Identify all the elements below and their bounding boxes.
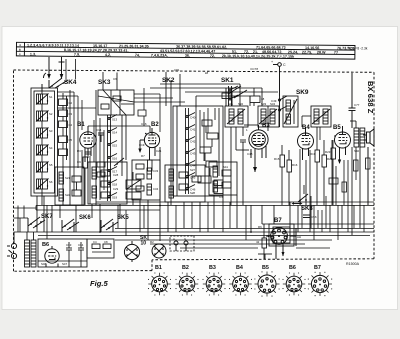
svg-text:B6: B6 <box>289 265 296 271</box>
svg-text:S46: S46 <box>41 262 47 266</box>
tube B7 socket view <box>266 228 287 245</box>
svg-text:C2: C2 <box>69 101 73 105</box>
wire bus y224 <box>262 223 374 225</box>
switch SK6 contacts <box>62 219 79 232</box>
wire ladder rungs bank L1 <box>41 91 43 193</box>
switch SK2 contact C45 <box>186 173 196 180</box>
label SK2 <box>162 77 175 84</box>
coil bank L1 outer frame <box>31 88 58 196</box>
rotary switch volume control <box>150 240 166 258</box>
svg-text:R19: R19 <box>310 152 316 156</box>
header data table <box>16 42 355 59</box>
wire droplines to buses <box>44 147 368 241</box>
coil S4 cell <box>36 145 53 156</box>
switch SK3 top junction box <box>98 90 134 115</box>
note TI 51 <box>347 47 368 51</box>
svg-text:S13: S13 <box>112 118 118 122</box>
resistor R15 under B3 <box>247 145 298 205</box>
label SK1 <box>221 77 234 84</box>
capacitor cluster inside SK2 <box>198 108 219 183</box>
svg-text:S32: S32 <box>238 102 244 106</box>
svg-text:42: 42 <box>256 240 260 244</box>
svg-text:7,9,: 7,9, <box>74 53 80 57</box>
svg-text:C81: C81 <box>174 68 180 72</box>
svg-text:Fig.5: Fig.5 <box>90 279 108 288</box>
svg-text:B1: B1 <box>155 265 162 271</box>
svg-text:C3: C3 <box>219 195 223 199</box>
switch SK1 contact fan <box>226 86 247 106</box>
aerial input jacks <box>7 232 17 259</box>
svg-text:S22: S22 <box>65 193 70 197</box>
svg-text:C49: C49 <box>271 99 277 103</box>
svg-text:C3: C3 <box>69 112 73 116</box>
switch SK8 lever <box>292 194 309 205</box>
tube B3 <box>249 125 268 166</box>
svg-text:B2: B2 <box>151 122 159 128</box>
grid stopper R24 left of B5 <box>325 140 336 205</box>
svg-text:C8: C8 <box>104 240 108 244</box>
socket pin dots rings <box>148 271 332 296</box>
svg-text:BX 638 Z: BX 638 Z <box>366 81 375 114</box>
table row 2 values <box>19 48 338 55</box>
socket diagram B7 <box>308 272 332 296</box>
svg-text:C5: C5 <box>69 138 73 142</box>
socket diagram B4 label <box>236 265 243 271</box>
label BX 638 Z <box>366 81 375 114</box>
switch SK3 contact S14 <box>108 128 118 135</box>
resistor R31 in box <box>92 240 111 252</box>
switch SK3 contact S15 <box>108 141 118 148</box>
trimmer capacitor column SK4 bank <box>59 93 73 205</box>
switch SK2 outer frame <box>173 106 223 196</box>
IF transformer S36 S37 between B3 and B4 <box>311 106 331 127</box>
svg-text:R23: R23 <box>325 150 331 154</box>
tube B4 label <box>302 125 310 131</box>
tube B2 <box>140 128 160 160</box>
capacitor C56 mid right <box>303 215 317 219</box>
coil S6 cell <box>36 179 53 190</box>
tube B7 box <box>269 224 294 246</box>
svg-text:⊙C78: ⊙C78 <box>250 67 258 71</box>
svg-text:51,: 51, <box>232 50 237 54</box>
svg-text:R1500A: R1500A <box>346 262 360 266</box>
table row 3 values <box>19 52 295 59</box>
svg-text:SK6: SK6 <box>79 215 91 221</box>
svg-text:C77: C77 <box>354 103 360 107</box>
svg-text:C4: C4 <box>69 123 73 127</box>
svg-text:S40: S40 <box>354 149 360 153</box>
table row 1 values <box>19 43 354 50</box>
svg-text:S21: S21 <box>65 176 70 180</box>
wire tick above sockets <box>258 254 272 259</box>
label SK4 <box>64 79 77 86</box>
svg-text:C44: C44 <box>190 164 196 168</box>
switch SK3 contact S18 <box>108 180 118 187</box>
svg-text:B4: B4 <box>302 125 310 131</box>
svg-text:S19: S19 <box>112 196 118 200</box>
svg-text:B5: B5 <box>262 265 269 271</box>
svg-text:C12: C12 <box>128 184 134 188</box>
wire SK8 riser <box>290 185 311 228</box>
svg-text:72,: 72, <box>244 50 249 54</box>
svg-text:1,2,3,4,5,6,7,8,9,10,11,12,13,: 1,2,3,4,5,6,7,8,9,10,11,12,13,14 <box>27 43 80 47</box>
wire B4 B5 risers <box>300 140 347 232</box>
svg-text:74,: 74, <box>135 53 140 57</box>
svg-text:B4: B4 <box>236 265 243 271</box>
tube B3 label <box>262 123 270 129</box>
wire bus from bank L1 down <box>37 90 70 232</box>
tube B7 label <box>274 218 282 224</box>
capacitor C77 top right <box>349 73 360 128</box>
socket diagram B6 label <box>289 265 296 271</box>
switch SK5 contacts <box>101 219 118 232</box>
capacitor C36 above IF1 <box>222 88 265 106</box>
switch SK9 wafer <box>271 96 287 127</box>
svg-text:C48: C48 <box>247 152 253 156</box>
svg-text:28,W: 28,W <box>317 51 326 55</box>
power unit box B6 <box>38 239 114 267</box>
svg-text:SK1: SK1 <box>221 77 234 84</box>
svg-text:C40: C40 <box>190 116 196 120</box>
wire verticals between L1 and SK3 <box>74 92 94 205</box>
socket diagram B2 <box>176 273 198 295</box>
svg-text:S27: S27 <box>190 168 195 172</box>
rotary switch SK10 <box>124 241 139 262</box>
wire horizontal bus heater <box>14 231 375 233</box>
svg-text:S18: S18 <box>112 183 118 187</box>
svg-text:S6: S6 <box>49 180 53 184</box>
svg-text:C41: C41 <box>190 128 196 132</box>
wire bus y244 <box>150 243 305 245</box>
antenna terminal arrow <box>44 57 51 79</box>
gram jack dashed box <box>170 236 194 251</box>
svg-text:C34: C34 <box>153 187 159 191</box>
band filter box S27 S28 <box>165 165 205 202</box>
svg-text:R15: R15 <box>274 157 280 161</box>
svg-text:C43: C43 <box>190 152 196 156</box>
svg-text:2k,1k,15,k,10,1g,40,1x,2g,25,2: 2k,1k,15,k,10,1g,40,1x,2g,25,2k,7,=,17,1… <box>222 54 295 59</box>
svg-text:÷: ÷ <box>19 52 21 56</box>
switch SK2 contact C44 <box>186 161 196 168</box>
svg-text:B6: B6 <box>42 242 49 248</box>
switch SK3 contact S19 <box>108 193 118 200</box>
coil S1 cell <box>36 94 53 105</box>
socket diagram B5 <box>255 272 280 297</box>
tube B1 label <box>77 122 85 128</box>
svg-text:R2: R2 <box>150 240 154 244</box>
switch SK4 contact fan <box>42 78 68 91</box>
svg-text:TI 51 =8 -2.3k: TI 51 =8 -2.3k <box>347 47 368 51</box>
coil S3 cell <box>36 128 53 139</box>
label SK9 <box>296 89 309 96</box>
band filter box S21 S22 <box>55 167 84 205</box>
switch SK3 contact S16 <box>108 154 118 161</box>
diode load resistors right of B4 <box>310 127 333 205</box>
svg-text:S5: S5 <box>49 163 53 167</box>
svg-text:C42: C42 <box>190 140 196 144</box>
ground arrow under B5 <box>338 158 341 164</box>
band filter box S41 <box>209 162 237 195</box>
svg-text:77: 77 <box>334 51 338 55</box>
socket diagram B5 label <box>262 265 269 271</box>
capacitor C30 under B1 bank <box>85 148 91 158</box>
socket diagram B2 label <box>182 265 189 271</box>
socket diagram B3 label <box>209 265 216 271</box>
svg-text:C6: C6 <box>113 77 117 81</box>
node C terminal top centre <box>271 60 286 96</box>
wire SK2 feeds <box>150 67 278 205</box>
switch SK2 contact C46 <box>186 185 196 192</box>
svg-text:S47: S47 <box>62 262 68 266</box>
switch SK2 contact C41 <box>186 125 196 132</box>
IF transformer S33 S34 <box>258 102 279 127</box>
svg-text:±: ± <box>19 48 21 52</box>
svg-text:22,75,: 22,75, <box>302 50 312 54</box>
tube B6 rectifier <box>45 246 59 267</box>
rotary switch SK10 label <box>140 235 147 247</box>
switch SK1 wafer spine <box>229 86 239 106</box>
socket diagram B4 <box>229 273 251 295</box>
IF transformer S31 S32 <box>225 102 248 127</box>
capacitor C63 C64 in B6 box <box>66 242 84 267</box>
socket diagram B1 <box>148 273 170 295</box>
svg-text:+: + <box>271 60 273 64</box>
label R1500A <box>346 262 360 266</box>
gram jack contacts <box>173 237 188 251</box>
svg-text:S4: S4 <box>49 146 53 150</box>
svg-text:C21: C21 <box>156 149 162 153</box>
svg-text:25,24,: 25,24, <box>288 50 298 54</box>
label SK6 <box>79 215 91 221</box>
wire comb centre lower <box>118 202 246 240</box>
wire risers right block <box>302 116 370 232</box>
socket diagram B6 <box>283 273 305 295</box>
wire horizontal bus HT <box>38 235 370 237</box>
tube B5 <box>334 126 350 158</box>
svg-text:k8: k8 <box>205 71 209 75</box>
svg-text:7,4,6,23A,: 7,4,6,23A, <box>151 53 168 57</box>
svg-text:SK9: SK9 <box>296 89 309 96</box>
svg-text:21,: 21, <box>253 50 258 54</box>
wire left margin stubs <box>14 206 37 233</box>
label Fig.5 <box>90 279 108 288</box>
svg-text:S33: S33 <box>261 102 267 106</box>
svg-text:10: 10 <box>141 241 147 247</box>
loudspeaker <box>363 129 374 146</box>
coil S2 cell <box>36 111 53 122</box>
resistor R3 under B1 <box>77 149 88 205</box>
socket diagram B3 <box>203 273 225 295</box>
resistor R28 left of B7 <box>256 224 267 259</box>
svg-text:S1: S1 <box>49 95 53 99</box>
band filter box C33 C34 <box>132 160 160 200</box>
switch SK3 contact S17 <box>108 167 118 174</box>
wire B1 anode to SK2 <box>88 122 150 132</box>
svg-text:B2: B2 <box>182 265 189 271</box>
switch SK3 contact S13 <box>108 115 118 122</box>
svg-text:C33: C33 <box>153 169 159 173</box>
switch SK2 contact C40 <box>186 113 196 120</box>
wire horizontal bus ground return <box>115 228 374 230</box>
tube B2 label <box>151 122 159 128</box>
output transformer S40 <box>350 121 365 153</box>
svg-text:C4: C4 <box>93 240 97 244</box>
switch SK2 wafer spine <box>186 108 189 194</box>
svg-text:S15: S15 <box>112 144 118 148</box>
resistor R7 under B2 <box>139 143 162 171</box>
svg-text:SK2: SK2 <box>162 77 175 84</box>
svg-text:S28: S28 <box>190 191 195 195</box>
svg-text:B5: B5 <box>333 125 341 131</box>
svg-text:SK4: SK4 <box>64 79 77 86</box>
svg-text:C: C <box>283 63 286 67</box>
switch SK3 wafer spine <box>108 115 111 201</box>
switch SK3 lower contacts extra <box>97 118 105 200</box>
svg-text:B3: B3 <box>209 265 216 271</box>
tube B6 label <box>42 242 49 248</box>
switch SK7 contacts <box>28 217 45 232</box>
wire horizontal bus AVC <box>36 205 374 207</box>
svg-text:B3: B3 <box>262 123 270 129</box>
wire B6 box bottom labels <box>38 261 87 266</box>
oscillator coil box S35 <box>283 96 298 127</box>
wire verticals SK3 bank <box>96 72 126 205</box>
ground arrow under B2 <box>138 140 141 153</box>
ground arrow under B3 <box>253 166 257 172</box>
label SK8 <box>301 206 313 212</box>
svg-text:S14: S14 <box>112 131 118 135</box>
label SK3 <box>98 77 117 86</box>
label SK5 <box>117 215 129 221</box>
socket diagram B1 label <box>155 265 162 271</box>
svg-text:R16: R16 <box>292 163 298 167</box>
switch SK2 contact C43 <box>186 149 196 156</box>
svg-text:B7: B7 <box>314 265 321 271</box>
svg-text:C14: C14 <box>96 128 102 132</box>
mains transformer S45 <box>25 232 37 267</box>
capacitor C16 coupling parts <box>138 88 146 126</box>
svg-text:SK8: SK8 <box>301 206 313 212</box>
svg-text:C29: C29 <box>113 187 119 191</box>
wire B7 leads down <box>276 228 301 259</box>
svg-text:R7: R7 <box>141 154 145 158</box>
wire bus y202 <box>96 201 374 203</box>
svg-text:SK3: SK3 <box>98 79 111 86</box>
capacitor C14 right of B1 <box>96 128 104 142</box>
svg-text:+: + <box>19 43 21 47</box>
svg-text:36,: 36, <box>185 54 190 58</box>
switch SK2 inner risers <box>196 108 208 176</box>
wire comb right lower <box>302 196 364 240</box>
svg-text:18: 18 <box>261 97 265 101</box>
svg-text:72,: 72, <box>210 54 215 58</box>
svg-text:S2: S2 <box>49 112 53 116</box>
capacitor C50 C51 bottom of SK2 <box>214 180 223 194</box>
svg-text:R6: R6 <box>258 225 262 229</box>
svg-text:C28: C28 <box>113 173 119 177</box>
tube B1 <box>80 126 96 162</box>
dashed schematic border <box>14 70 375 271</box>
wire bus segments lower <box>20 205 332 248</box>
wire feeds into SK4 <box>66 59 76 79</box>
earth terminal arrow <box>59 57 65 79</box>
svg-text:1,3,: 1,3, <box>30 52 36 56</box>
capacitor C12 bank SK3 <box>126 172 141 205</box>
svg-text:S41: S41 <box>223 165 228 169</box>
wire horizontals upper region <box>57 92 185 132</box>
socket diagram B7 label <box>314 265 321 271</box>
tube B4 <box>298 127 314 160</box>
tube B5 label <box>333 125 341 131</box>
svg-text:SK5: SK5 <box>117 215 129 221</box>
wire B3 connections <box>219 106 268 205</box>
svg-text:AH: AH <box>297 235 301 239</box>
svg-text:S16: S16 <box>112 157 118 161</box>
band filter box S23 S24 <box>88 158 127 204</box>
svg-text:4,2,: 4,2, <box>105 53 111 57</box>
svg-text:B7: B7 <box>274 218 282 224</box>
switch SK2 contact C42 <box>186 137 196 144</box>
coil S5 cell <box>36 162 53 173</box>
svg-text:S3: S3 <box>49 129 53 133</box>
label SK7 <box>41 214 53 220</box>
